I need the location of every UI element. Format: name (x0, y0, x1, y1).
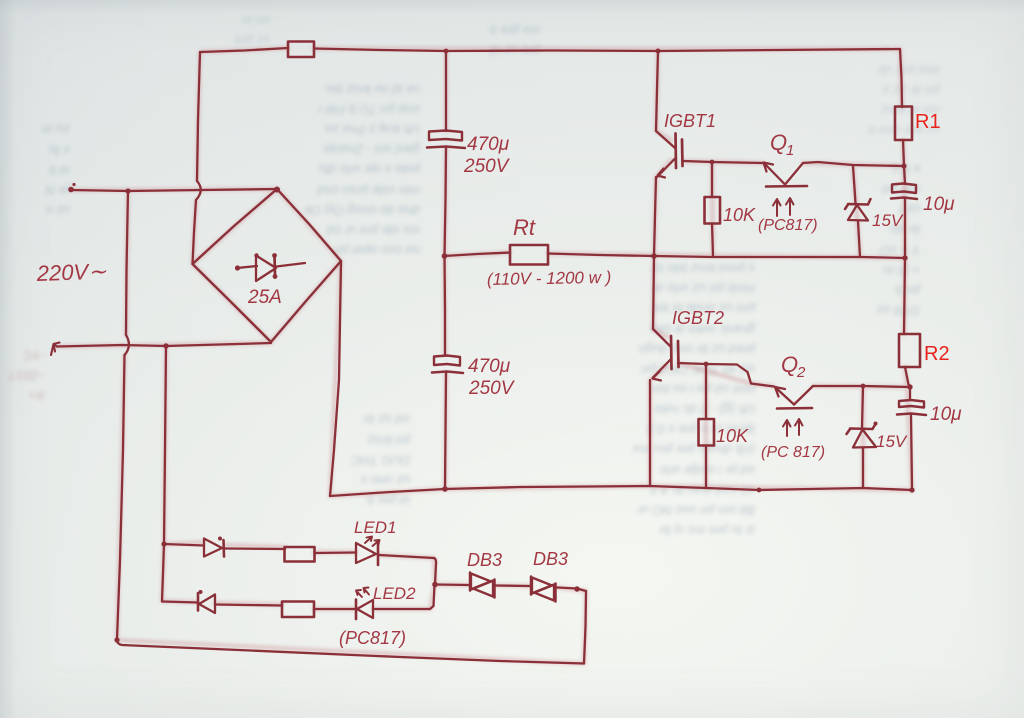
halo copy of main wires (57, 48, 912, 664)
node rail end (909, 487, 914, 492)
node 10K1 top (710, 160, 715, 165)
svg-text:470μ: 470μ (467, 134, 510, 155)
wire bottom-right riser (584, 591, 586, 664)
diode D3 (204, 537, 285, 557)
terminal AC L (68, 187, 74, 193)
wire LED1 corner down (434, 558, 436, 584)
svg-text:Rt: Rt (513, 215, 536, 240)
svg-text:R2: R2 (924, 343, 950, 365)
svg-text:10K: 10K (723, 205, 756, 225)
paper creases (389, 369, 791, 493)
wire Rt rail (444, 253, 510, 257)
svg-text:470μ: 470μ (468, 356, 511, 377)
Q2 LED arrows (783, 419, 803, 436)
node rail 10K2 (757, 488, 762, 493)
wire C3 to rail (904, 199, 906, 258)
node Rt left (442, 253, 448, 259)
wire gate rail IGBT1 (684, 161, 764, 163)
node bottom-left corner (114, 637, 119, 642)
opto-transistor Q1 (764, 163, 808, 187)
bridge diode symbol (235, 253, 305, 281)
wire left drop from top corner (197, 52, 200, 181)
zener D1 15V (845, 166, 871, 257)
diac DB3 (first) (470, 573, 495, 598)
capacitor C3 10u wire (904, 166, 905, 184)
svg-text:LED2: LED2 (373, 584, 416, 603)
node LED merge (432, 582, 438, 588)
wire merge to DB3 (435, 583, 469, 586)
diac DB3 (second) (531, 577, 556, 602)
svg-text:DB3: DB3 (533, 549, 568, 569)
wire R1 to node (903, 140, 904, 166)
resistor 10K (lower) (699, 364, 715, 488)
svg-text:2: 2 (796, 364, 806, 381)
wire top rail right (314, 49, 900, 52)
svg-text:10μ: 10μ (923, 194, 955, 215)
wire inner vertical lower (162, 544, 164, 601)
transistor IGBT2 (650, 256, 679, 486)
wire inner vertical (164, 346, 166, 544)
wire R3 to LED1 (315, 551, 357, 554)
wire LED1 branch (164, 544, 204, 546)
wire R4 to LED2 (314, 608, 356, 610)
node AC N junction (163, 343, 168, 348)
resistor Rt (510, 245, 548, 265)
terminal AC N arrow (51, 343, 60, 356)
wire C2 to bottom rail (445, 373, 446, 489)
bridge rectifier 25A (193, 189, 342, 342)
wire outer vertical (top) (126, 191, 128, 335)
node IGBT1 emitter rail (651, 253, 657, 259)
svg-text:LED1: LED1 (354, 518, 397, 537)
node R1 bottom (901, 163, 906, 168)
wire DB3 to corner (557, 588, 586, 592)
wire Q1 collector to R1 node (803, 162, 904, 166)
svg-text:220V∼: 220V∼ (35, 259, 107, 286)
wire LED2 branch (162, 602, 198, 603)
svg-text:Q: Q (770, 130, 787, 155)
wire gate rail IGBT2 (678, 363, 774, 387)
LED2 (356, 588, 430, 620)
capacitor C2 470u plates (434, 356, 460, 366)
diode D4 (198, 590, 282, 613)
node LED1 branch start (161, 541, 166, 546)
opto-transistor Q2 (775, 386, 910, 409)
wire hop over AC N line (125, 335, 129, 355)
wire LED2 corner up (430, 585, 435, 609)
wire DB3 link (496, 584, 530, 587)
wire right column R2 (904, 258, 905, 334)
node top-right corner (900, 49, 902, 107)
svg-text:15V: 15V (872, 211, 904, 230)
capacitor C3 10u plates (892, 184, 916, 194)
svg-text:1: 1 (786, 142, 794, 159)
resistor R4 (282, 602, 314, 618)
wire bottom rail (upper circuit) (330, 486, 912, 496)
node R2 bottom (907, 384, 912, 389)
node rail cap470-2 (442, 486, 448, 492)
wire Rt rail mid (548, 254, 905, 259)
wire to bridge left vertex (193, 200, 197, 264)
resistor R1 (895, 107, 912, 141)
svg-text:Q: Q (781, 352, 798, 377)
node IGBT1 collector top (656, 49, 661, 54)
svg-text:25A: 25A (247, 287, 282, 308)
wire R2 bottom (905, 367, 909, 387)
wire hop over AC line (196, 181, 201, 200)
wire bridge + output drop (330, 261, 341, 496)
node C1 top (444, 49, 449, 54)
svg-text:250V: 250V (468, 378, 516, 399)
capacitor C4 10u (897, 387, 926, 490)
capacitor C1 470u wire top (445, 51, 447, 131)
capacitor C1 470u plates (429, 131, 462, 141)
wire long bottom rail (117, 640, 584, 664)
svg-text:DB3: DB3 (467, 550, 502, 570)
wire top rail (200, 48, 288, 52)
node 10K2 top (704, 362, 709, 367)
wire AC line L (71, 189, 277, 191)
capacitor C2 470u wire top (443, 256, 446, 355)
node bridge top vertex (274, 187, 280, 193)
node DB3 chain end (574, 586, 579, 591)
svg-text:(PC817): (PC817) (758, 217, 818, 234)
svg-text:10μ: 10μ (930, 404, 962, 425)
svg-text:(PC817): (PC817) (339, 628, 406, 648)
fuse F1 (288, 42, 314, 58)
svg-text:(110V - 1200 w ): (110V - 1200 w ) (487, 268, 612, 289)
svg-text:R1: R1 (915, 111, 941, 133)
svg-text:15V: 15V (876, 432, 908, 451)
resistor 10K (upper) (705, 162, 721, 256)
resistor R2 (899, 334, 920, 367)
resistor R3 (285, 547, 315, 562)
LED1 (356, 537, 434, 566)
wire C1 to Rt rail (445, 148, 447, 256)
svg-text:250V: 250V (463, 156, 511, 177)
svg-text:IGBT1: IGBT1 (664, 111, 716, 131)
zener D2 15V (847, 386, 878, 488)
Q1 LED arrows (773, 198, 794, 216)
svg-text:(PC 817): (PC 817) (761, 444, 825, 461)
wire outer vertical (bottom) (117, 355, 125, 639)
transistor IGBT1 (654, 51, 683, 256)
svg-text:IGBT2: IGBT2 (672, 308, 724, 328)
node AC L junction (125, 188, 130, 193)
wire AC line N (57, 343, 271, 347)
node rail right end (902, 255, 907, 260)
node zener2 top (861, 384, 866, 389)
svg-text:10K: 10K (716, 426, 749, 446)
